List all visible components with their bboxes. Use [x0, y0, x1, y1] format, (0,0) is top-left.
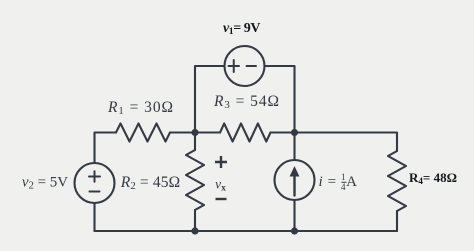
resistor R1 zigzag — [116, 124, 170, 142]
resistor R2 zigzag — [186, 150, 204, 210]
node B junction dot — [191, 129, 198, 136]
label R2 = 45 ohm — [121, 174, 181, 192]
resistor R3 zigzag — [220, 124, 271, 142]
wire: left branch top segment (node A to v2 top) with corner — [95, 133, 117, 164]
wire: current source top lead — [293, 133, 295, 161]
wire: bottom rail — [95, 230, 398, 232]
wire: v1 loop right side — [265, 66, 295, 133]
wire: current source bottom lead — [293, 200, 295, 231]
wire: v2 bottom lead — [93, 203, 95, 231]
voltage source v2 circle — [75, 163, 115, 203]
wire: R2 bottom lead — [194, 210, 196, 231]
current source I1 circle — [275, 160, 315, 200]
v1 plus sign — [229, 60, 240, 72]
wire: v1 loop left side — [195, 66, 225, 133]
resistor R4 zigzag — [388, 151, 406, 211]
current source arrowhead — [290, 166, 300, 177]
current source arrow shaft — [293, 175, 295, 196]
node C junction dot — [291, 129, 298, 136]
wire: R4 bottom lead — [396, 211, 398, 231]
label vx plus — [211, 152, 231, 172]
label R3 = 54 ohm — [214, 93, 280, 111]
label v2 = 5V — [22, 175, 68, 192]
wire: R1 right lead to node B — [170, 131, 195, 133]
label vx minus — [214, 196, 230, 202]
bottom node dot left — [191, 227, 198, 234]
v1 minus sign — [247, 65, 257, 67]
wire: R3 right lead to node C — [271, 131, 295, 133]
label R1 = 30 ohm — [108, 98, 174, 116]
voltage source v1 circle — [225, 46, 265, 86]
v2 minus sign — [90, 191, 100, 193]
label R4 = 48 ohm — [409, 170, 457, 186]
label v1 = 9V — [223, 21, 260, 37]
wire: node B to R2 top — [194, 133, 196, 151]
v2 plus sign — [89, 171, 100, 182]
label i = 1/4 A — [318, 173, 357, 191]
wire: R3 left lead — [195, 131, 220, 133]
wire: node C to R4 top — [295, 133, 398, 152]
bottom node dot right — [291, 227, 298, 234]
label vx — [215, 177, 226, 194]
